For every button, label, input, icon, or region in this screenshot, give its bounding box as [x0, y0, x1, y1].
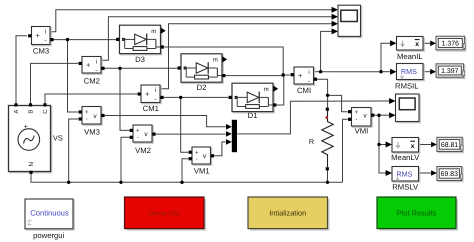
svg-text:x: x: [415, 41, 419, 48]
wire CM1 i output up to Scope input 3: [160, 24, 332, 89]
wire resistor R bottom to neutral rail: [327, 170, 329, 182]
wire D2 cathode to rectifier output node: [225, 75, 283, 77]
arrow into Display 69.83: [431, 170, 437, 176]
wire MeanIL to Display 1.376: [423, 42, 430, 44]
neutral rail junction R: [326, 181, 329, 184]
annotation box Intialization: [248, 197, 330, 231]
diode D1: [229, 83, 279, 120]
svg-text:MeanIL: MeanIL: [397, 52, 423, 61]
svg-text:VS: VS: [53, 134, 63, 143]
svg-text:RMSLV: RMSLV: [392, 183, 419, 192]
rms block RMSIL: [397, 64, 425, 81]
svg-text:-: -: [154, 96, 156, 103]
powergui block: [25, 199, 74, 230]
wire VM2 - to neutral rail: [121, 137, 129, 182]
arrow Mux input 3: [226, 139, 232, 145]
wire node B down to VM2 +: [120, 68, 129, 130]
node B junction: [118, 67, 121, 70]
arrow Scope1 input 1: [389, 98, 395, 104]
svg-text:VMI: VMI: [355, 127, 369, 136]
svg-text:VM3: VM3: [84, 128, 100, 137]
display Display 1.376: [436, 36, 466, 51]
scope Scope: [338, 5, 362, 37]
wire VM1 - to neutral rail: [182, 159, 188, 183]
svg-text:+: +: [298, 71, 303, 80]
mean value block MeanIL: [397, 37, 425, 52]
neutral rail junction VM2: [119, 181, 122, 184]
svg-text:RMS: RMS: [396, 169, 412, 178]
wire VMI v output to junction: [375, 114, 379, 116]
voltage measurement VM2: [130, 125, 156, 155]
svg-text:i: i: [155, 87, 156, 94]
svg-text:N: N: [28, 162, 35, 166]
svg-text:CMI: CMI: [297, 86, 311, 95]
diode D2: [178, 54, 228, 92]
svg-text:+: +: [145, 89, 150, 98]
wire junction down to MeanLV: [379, 115, 386, 144]
arrow Mux input 1: [226, 124, 232, 130]
arrow into RMSIL: [390, 69, 396, 75]
wire node A down to VM3 +: [68, 40, 79, 112]
wire RMSLV to Display 69.83: [419, 172, 432, 174]
arrow into Display 1.376: [430, 41, 436, 47]
voltage measurement VM3: [79, 107, 105, 137]
arrow Mux input 2: [226, 131, 232, 137]
wire up into MeanIL: [381, 43, 390, 71]
IL signal junction: [379, 70, 382, 73]
voltage measurement VMI: [348, 108, 374, 136]
svg-text:D2: D2: [197, 83, 207, 92]
svg-text:-: -: [86, 117, 88, 123]
wire CM1 output to D1 anode: [162, 96, 229, 98]
arrow Scope input 2: [332, 14, 338, 20]
neutral rail junction VM1: [180, 181, 183, 184]
node A junction: [66, 38, 69, 41]
arrow Scope1 input 2: [389, 112, 395, 118]
wire CMI i output to junction: [314, 71, 321, 73]
svg-text:R: R: [309, 137, 314, 146]
svg-text:-: -: [137, 135, 139, 141]
wire junction to MeanIL / RMSIL junction: [321, 71, 381, 73]
svg-text:Intialization: Intialization: [269, 209, 306, 218]
arrow into Display 1.397: [430, 69, 436, 75]
arrow into MeanLV: [386, 142, 392, 148]
CMI i junction: [319, 70, 322, 73]
svg-text:CM3: CM3: [33, 47, 49, 56]
neutral rail junction VM3: [67, 181, 70, 184]
svg-text:1.376: 1.376: [442, 41, 459, 48]
display Display 68.81: [437, 137, 463, 152]
arrow Scope input 1: [332, 7, 338, 13]
arrow Scope input 3: [332, 21, 338, 27]
svg-text:CM2: CM2: [84, 77, 100, 86]
svg-text:VM2: VM2: [135, 146, 151, 155]
svg-text:-: -: [308, 78, 310, 85]
svg-text:-: -: [44, 38, 46, 45]
wire VM3 - to neutral rail: [69, 119, 79, 182]
svg-text:i: i: [45, 29, 46, 36]
node C junction: [179, 96, 182, 99]
LV signal junction at MeanLV: [377, 143, 380, 146]
svg-text:68.81: 68.81: [441, 142, 458, 149]
svg-text:-: -: [196, 156, 198, 162]
svg-text:m: m: [213, 57, 218, 63]
wire CM2 output to D2 anode: [103, 67, 178, 69]
three-phase source VS: [9, 103, 63, 174]
wire MeanLV to Display 68.81: [419, 144, 432, 146]
svg-text:C: C: [42, 109, 49, 114]
wire RMSIL to Display 1.397: [423, 71, 430, 73]
scope Scope1: [396, 94, 421, 123]
svg-text:i: i: [308, 69, 309, 76]
wire D3 cathode to rectifier output node: [164, 47, 283, 75]
svg-text:69.83: 69.83: [441, 171, 458, 178]
load node junction: [326, 94, 329, 97]
svg-text:D3: D3: [135, 55, 145, 64]
current measurement CM3: [28, 27, 54, 56]
annotation box Demo Info: [125, 197, 207, 231]
wire VM3 v output to Mux input 1: [105, 116, 226, 127]
wire node C down to VM1 +: [181, 97, 189, 152]
mean value block MeanLV: [392, 138, 420, 154]
wire into Scope1 input 2: [379, 114, 389, 116]
wire phase A: source A up to CM3 input: [16, 36, 27, 104]
mux Mux: [232, 120, 237, 152]
current measurement CMI: [291, 67, 318, 95]
wire phase B: source B up to CM2 input: [31, 63, 79, 103]
svg-text:CM1: CM1: [143, 104, 159, 113]
wire Mux output to Scope1 input 1: [237, 101, 389, 134]
svg-text:RMSIL: RMSIL: [395, 82, 419, 91]
current measurement CM1: [138, 85, 164, 113]
svg-text:+: +: [36, 31, 41, 40]
svg-text:-: -: [355, 117, 357, 123]
svg-text:+: +: [354, 109, 358, 116]
svg-text:i: i: [96, 59, 97, 66]
svg-text:+: +: [86, 60, 91, 69]
wire VM2 v output to Mux input 2: [156, 133, 226, 135]
wire into RMSIL: [381, 71, 390, 73]
svg-text:B: B: [28, 110, 35, 114]
svg-text:Plot Results: Plot Results: [397, 209, 437, 218]
svg-text:+: +: [136, 128, 140, 135]
svg-text:-: -: [95, 68, 97, 75]
arrow Scope input 4: [332, 28, 338, 34]
wire CM3 output to D3 anode: [52, 39, 116, 41]
wire CM2 i output up to Scope input 2: [101, 17, 332, 60]
svg-text:Continuous: Continuous: [30, 209, 69, 218]
display Display 1.397: [436, 64, 465, 79]
svg-text:+: +: [85, 109, 89, 116]
wire D1 cathode up to rectifier output node: [276, 75, 290, 105]
svg-text:powergui: powergui: [33, 231, 64, 240]
resistor R: [309, 108, 333, 171]
svg-text:RMS: RMS: [401, 67, 417, 76]
wire load node to VMI +: [328, 95, 348, 111]
diode D3: [116, 25, 166, 64]
rms block RMSLV: [392, 167, 420, 183]
current measurement CM2: [79, 57, 105, 86]
annotation box Plot Results: [377, 197, 458, 231]
wire phase C: source C up to CM1 input: [45, 94, 137, 103]
LV signal junction at Scope1: [377, 114, 380, 117]
svg-text:m: m: [151, 29, 156, 35]
svg-text:A: A: [13, 110, 20, 114]
svg-text:Demo Info: Demo Info: [149, 211, 181, 218]
arrow into Display 68.81: [431, 142, 437, 148]
wire junction down to RMSLV: [379, 145, 386, 174]
svg-text:1.397: 1.397: [441, 68, 458, 75]
wire VM1 v output to Mux input 3: [214, 142, 225, 156]
arrow into MeanIL: [390, 40, 396, 46]
arrow into RMSLV: [386, 170, 392, 176]
svg-text:MeanLV: MeanLV: [391, 153, 420, 162]
wire junction up to Scope input 4: [321, 31, 332, 71]
svg-text:m: m: [264, 87, 269, 93]
wire CMI - down to load node: [317, 79, 327, 95]
voltage measurement VM1: [189, 147, 214, 176]
svg-text:D1: D1: [248, 111, 258, 120]
display Display 69.83: [437, 167, 463, 182]
wire load node down to resistor R: [327, 95, 329, 107]
svg-text:x: x: [411, 143, 415, 150]
svg-text:VM1: VM1: [194, 167, 210, 176]
rectifier output node junction: [282, 73, 285, 76]
wire neutral rail from source N to load return: [31, 174, 343, 182]
wire VMI - to neutral rail end: [343, 119, 348, 182]
wire CM3 i output up to Scope input 1: [50, 10, 332, 32]
